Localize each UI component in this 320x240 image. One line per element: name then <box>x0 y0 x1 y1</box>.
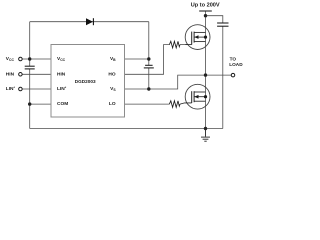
wire Vs pin jog to switch node <box>125 75 206 89</box>
terminal VCC input <box>19 57 23 61</box>
wire HV bus vertical (drain-source chain) <box>205 11 207 129</box>
node COM junction <box>28 102 31 105</box>
capacitor C1 VCC decoupling <box>25 66 35 69</box>
terminal LIN input <box>19 87 23 91</box>
svg-text:LO: LO <box>109 101 116 107</box>
IC U1 DGD2003 box <box>51 45 125 118</box>
node ground junction <box>204 127 207 130</box>
resistor R1 high-side gate <box>169 41 180 48</box>
node HV supply junction <box>204 14 207 17</box>
capacitor C2 bootstrap <box>144 65 154 68</box>
terminal TO LOAD <box>231 73 235 77</box>
node switch node junction <box>204 73 207 76</box>
wire bootstrap cap top lead <box>148 59 150 65</box>
svg-text:COM: COM <box>57 101 68 107</box>
wire left rail lower (COM/ground) <box>29 69 31 129</box>
ground <box>201 129 210 142</box>
wire COM <box>30 103 51 105</box>
svg-text:HIN: HIN <box>57 71 66 77</box>
wire bus capacitor to ground rail <box>222 26 224 128</box>
svg-text:DGD2003: DGD2003 <box>75 79 96 84</box>
wire VCC input <box>22 58 51 60</box>
wire LO to gate resistor <box>125 103 170 105</box>
node VB junction <box>147 57 150 60</box>
svg-text:Up to 200V: Up to 200V <box>191 2 220 8</box>
resistor R2 low-side gate <box>169 101 180 108</box>
svg-text:LOAD: LOAD <box>229 62 243 67</box>
wire HIN input <box>22 73 51 75</box>
wire HO to gate resistor <box>125 45 170 75</box>
transistor Q1 high-side NMOS <box>185 25 210 50</box>
svg-text:HIN: HIN <box>6 71 15 77</box>
wire high-side gate <box>180 44 188 46</box>
wire bootstrap cap bottom lead to Vs <box>148 68 150 89</box>
node Vs bootstrap junction <box>147 87 150 90</box>
diode D1 bootstrap <box>86 18 93 25</box>
capacitor C3 HV bus <box>217 23 228 26</box>
node VCC junction <box>28 57 31 60</box>
wire top bootstrap supply <box>30 21 149 23</box>
wire left rail upper (Vcc) <box>29 22 31 66</box>
wire bottom ground rail <box>30 128 223 130</box>
terminal HIN input <box>19 73 23 77</box>
svg-text:HO: HO <box>108 71 115 77</box>
wire HV supply branch to bus capacitor <box>206 16 223 23</box>
wire VB pin to bootstrap node <box>125 58 149 60</box>
wire switch node to load terminal <box>206 74 232 76</box>
svg-text:TO: TO <box>230 57 237 62</box>
wire VB riser <box>148 22 150 59</box>
wire LIN input <box>22 88 51 90</box>
power rail Up to 200V <box>199 10 212 12</box>
transistor Q2 low-side NMOS <box>180 84 210 109</box>
